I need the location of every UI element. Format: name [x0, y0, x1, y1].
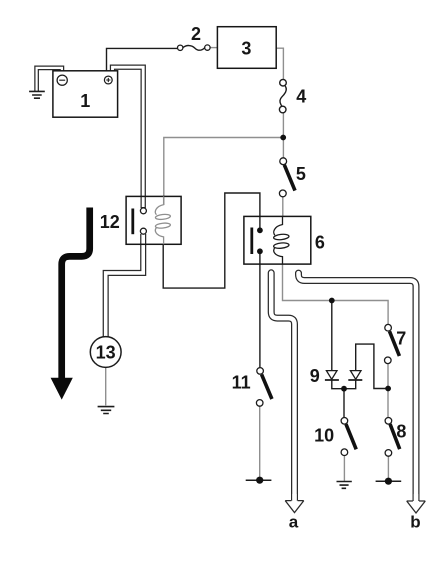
svg-text:9: 9 [310, 366, 320, 386]
svg-text:2: 2 [191, 24, 201, 44]
svg-text:b: b [410, 512, 420, 531]
svg-text:8: 8 [396, 421, 406, 441]
svg-text:5: 5 [296, 164, 306, 184]
svg-text:11: 11 [232, 372, 251, 392]
svg-text:6: 6 [315, 232, 325, 252]
svg-text:7: 7 [396, 328, 406, 348]
svg-text:4: 4 [296, 87, 306, 107]
svg-text:10: 10 [314, 426, 334, 446]
svg-text:3: 3 [241, 38, 251, 58]
svg-text:1: 1 [80, 91, 90, 111]
svg-text:12: 12 [100, 212, 120, 232]
svg-text:a: a [289, 512, 299, 531]
svg-text:13: 13 [96, 343, 116, 363]
